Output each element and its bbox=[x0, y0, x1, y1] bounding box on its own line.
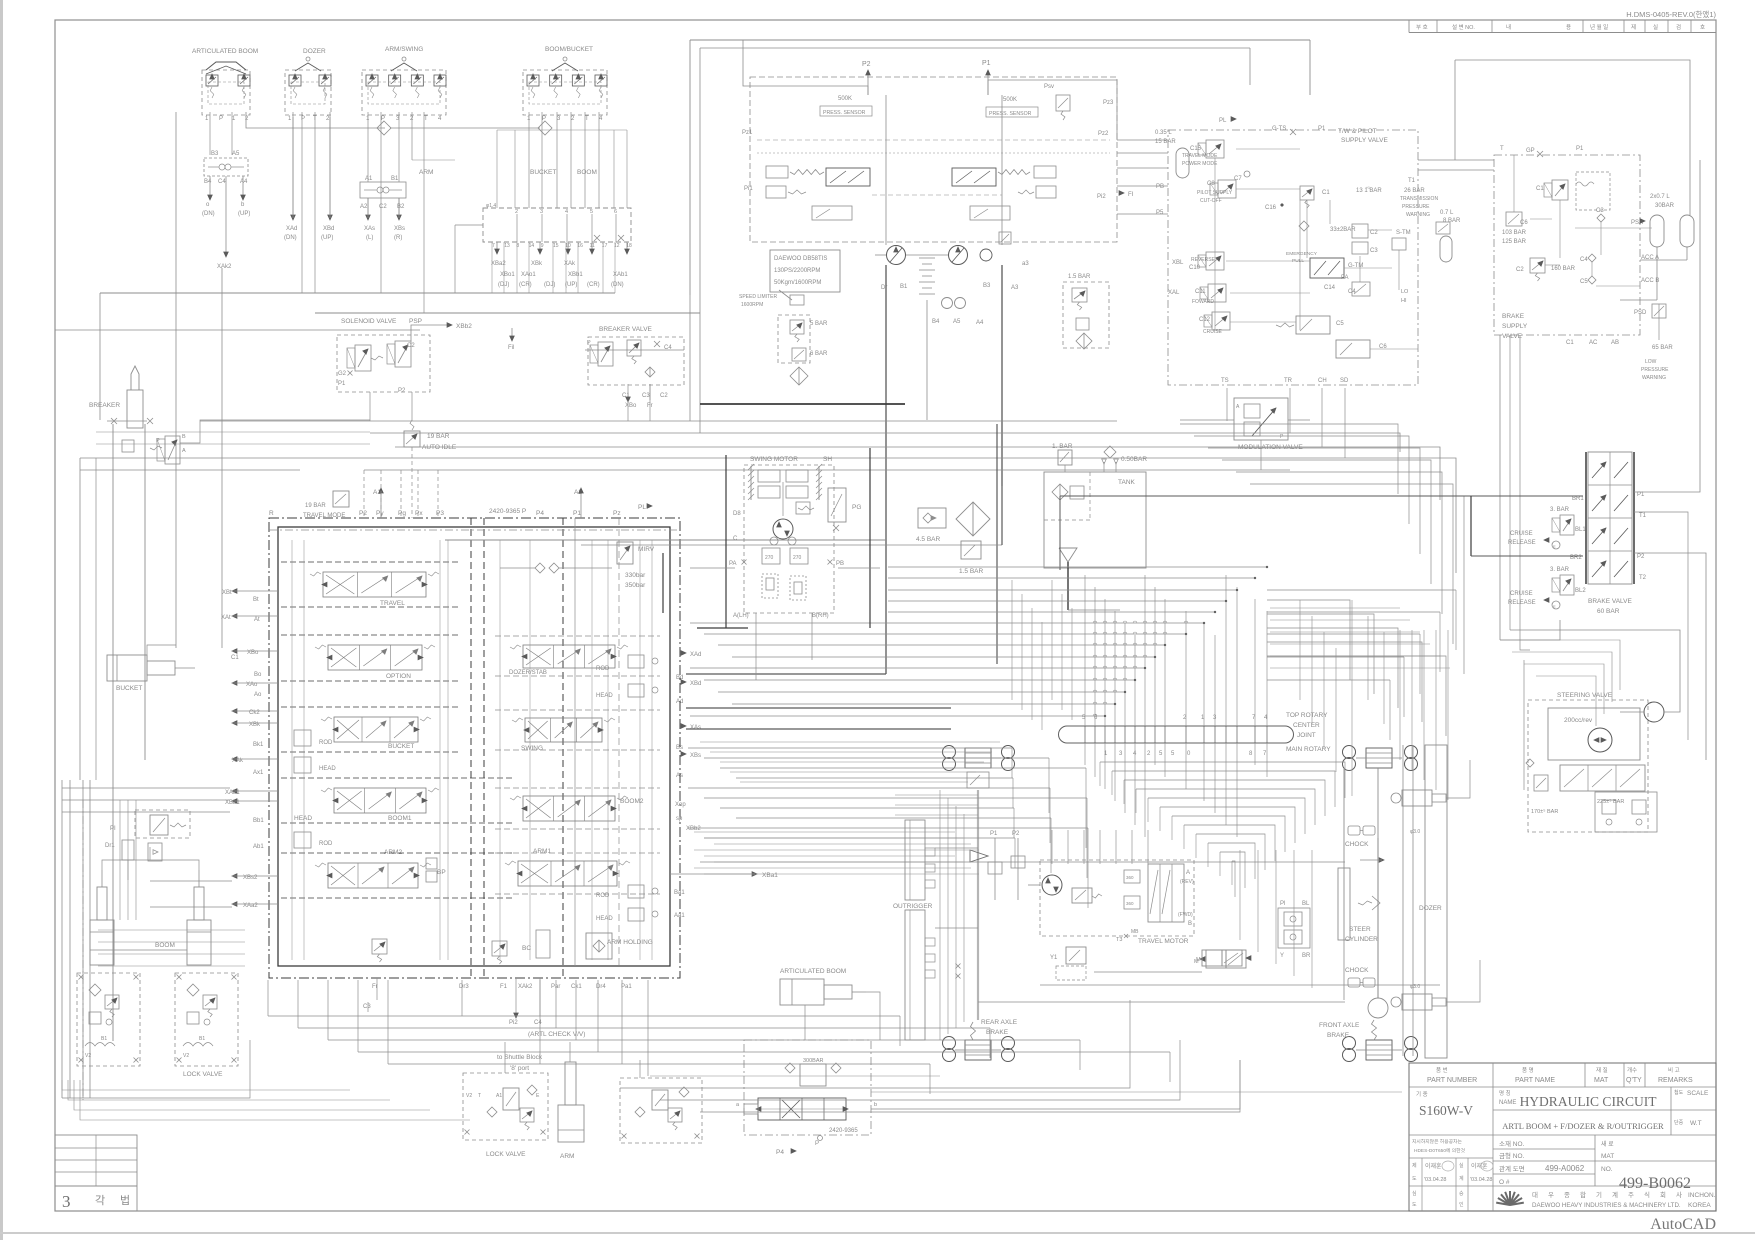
svg-text:MB: MB bbox=[1131, 929, 1139, 935]
svg-text:H.DMS-0405-REV.0(한앴1): H.DMS-0405-REV.0(한앴1) bbox=[1626, 10, 1716, 19]
svg-text:XBt: XBt bbox=[222, 590, 232, 596]
svg-text:'03.04.28: '03.04.28 bbox=[1470, 1177, 1492, 1183]
svg-text:LOW: LOW bbox=[1645, 359, 1657, 365]
svg-text:(DN): (DN) bbox=[611, 282, 624, 288]
svg-text:ROD: ROD bbox=[319, 841, 333, 847]
svg-text:BOOM1: BOOM1 bbox=[388, 815, 412, 822]
svg-text:XAt: XAt bbox=[221, 615, 231, 621]
svg-text:(CR): (CR) bbox=[519, 282, 532, 288]
svg-text:DOZER: DOZER bbox=[303, 48, 326, 55]
svg-text:MAT: MAT bbox=[1601, 1153, 1614, 1160]
svg-text:(R): (R) bbox=[394, 235, 402, 241]
svg-text:ARTL BOOM + F/DOZER & R/OUTRIG: ARTL BOOM + F/DOZER & R/OUTRIGGER bbox=[1502, 1121, 1664, 1131]
svg-text:CH: CH bbox=[1318, 378, 1327, 384]
svg-text:W.T: W.T bbox=[1690, 1120, 1702, 1127]
svg-text:WARNING: WARNING bbox=[1642, 375, 1666, 381]
svg-text:160 BAR: 160 BAR bbox=[1551, 266, 1576, 272]
svg-text:BREAKER VALVE: BREAKER VALVE bbox=[599, 326, 653, 333]
svg-text:360: 360 bbox=[1126, 901, 1134, 906]
svg-text:2: 2 bbox=[515, 209, 518, 215]
svg-text:V2: V2 bbox=[183, 1053, 189, 1059]
svg-text:Pl: Pl bbox=[1280, 901, 1285, 907]
svg-text:C2: C2 bbox=[379, 204, 387, 210]
svg-text:비 고: 비 고 bbox=[1668, 1066, 1680, 1074]
svg-text:SOLENOID VALVE: SOLENOID VALVE bbox=[341, 318, 397, 325]
svg-text:XBo: XBo bbox=[625, 403, 637, 409]
svg-text:RELEASE: RELEASE bbox=[1508, 540, 1536, 546]
svg-text:ARM2: ARM2 bbox=[384, 849, 402, 856]
svg-text:Bo: Bo bbox=[254, 672, 262, 678]
svg-text:2420-9365 P: 2420-9365 P bbox=[489, 508, 526, 515]
svg-text:SCALE: SCALE bbox=[1687, 1090, 1709, 1097]
svg-text:350bar: 350bar bbox=[625, 582, 646, 589]
svg-text:합: 합 bbox=[1580, 1190, 1586, 1199]
svg-text:1.5 BAR: 1.5 BAR bbox=[1068, 274, 1091, 280]
svg-text:식: 식 bbox=[1644, 1190, 1650, 1199]
svg-text:B1: B1 bbox=[900, 284, 908, 290]
svg-text:PSP: PSP bbox=[409, 318, 422, 325]
svg-text:G-TS: G-TS bbox=[1272, 126, 1286, 132]
svg-text:PRESS. SENSOR: PRESS. SENSOR bbox=[823, 110, 866, 116]
svg-text:C4: C4 bbox=[534, 1020, 542, 1026]
svg-text:MODULATION VALVE: MODULATION VALVE bbox=[1238, 444, 1303, 451]
svg-text:Bs: Bs bbox=[676, 745, 683, 751]
svg-text:Pg: Pg bbox=[398, 510, 406, 517]
svg-text:XAd: XAd bbox=[690, 652, 701, 658]
svg-text:C8: C8 bbox=[1207, 181, 1215, 187]
svg-text:이재훈: 이재훈 bbox=[1425, 1162, 1442, 1170]
svg-text:499-B0062: 499-B0062 bbox=[1619, 1175, 1691, 1192]
svg-text:AUTO IDLE: AUTO IDLE bbox=[422, 444, 457, 451]
svg-text:C2: C2 bbox=[1516, 267, 1524, 273]
svg-text:Fil: Fil bbox=[508, 345, 514, 351]
svg-text:C7: C7 bbox=[1234, 176, 1242, 182]
svg-text:A3: A3 bbox=[1011, 285, 1019, 291]
svg-text:승: 승 bbox=[1459, 1190, 1464, 1197]
svg-text:19 BAR: 19 BAR bbox=[305, 503, 326, 509]
svg-text:At: At bbox=[254, 617, 260, 623]
svg-text:OUTRIGGER: OUTRIGGER bbox=[893, 903, 933, 910]
svg-text:103 BAR: 103 BAR bbox=[1502, 230, 1527, 236]
svg-text:CHOCK: CHOCK bbox=[1345, 841, 1369, 848]
svg-text:4.5 BAR: 4.5 BAR bbox=[916, 536, 941, 543]
svg-text:500K: 500K bbox=[838, 96, 852, 102]
svg-text:Pz2: Pz2 bbox=[1098, 131, 1109, 137]
svg-text:65 BAR: 65 BAR bbox=[1652, 345, 1673, 351]
svg-text:MIRV: MIRV bbox=[638, 546, 655, 553]
svg-text:Pi2: Pi2 bbox=[509, 1020, 518, 1026]
svg-text:품 명: 품 명 bbox=[1522, 1067, 1534, 1074]
svg-text:ROD: ROD bbox=[319, 740, 333, 746]
svg-text:0.35 L: 0.35 L bbox=[1155, 130, 1172, 136]
svg-text:Ba1: Ba1 bbox=[674, 890, 685, 896]
svg-text:30BAR: 30BAR bbox=[1655, 203, 1675, 209]
svg-text:ARM1: ARM1 bbox=[533, 848, 551, 855]
svg-text:BL1: BL1 bbox=[1575, 527, 1586, 533]
svg-text:C1: C1 bbox=[1536, 186, 1544, 192]
svg-text:170±⁵ BAR: 170±⁵ BAR bbox=[1531, 808, 1558, 815]
svg-text:8 BAR: 8 BAR bbox=[1443, 218, 1461, 224]
svg-text:C4: C4 bbox=[218, 179, 226, 185]
svg-text:BP: BP bbox=[437, 869, 446, 876]
svg-text:(DN): (DN) bbox=[202, 211, 215, 217]
svg-text:14: 14 bbox=[529, 243, 535, 249]
svg-text:TANK: TANK bbox=[1118, 479, 1136, 486]
svg-text:HDES-D0T650에 의한것: HDES-D0T650에 의한것 bbox=[1414, 1147, 1466, 1154]
svg-text:TS: TS bbox=[1221, 378, 1229, 384]
svg-text:ARTICULATED BOOM: ARTICULATED BOOM bbox=[192, 48, 258, 55]
svg-text:V2: V2 bbox=[466, 1093, 472, 1099]
svg-text:B(RH): B(RH) bbox=[812, 613, 829, 619]
svg-text:R: R bbox=[269, 510, 274, 517]
svg-text:XBL: XBL bbox=[1172, 260, 1184, 266]
svg-text:Psv: Psv bbox=[1044, 84, 1054, 90]
svg-text:LO: LO bbox=[1401, 289, 1409, 295]
svg-text:Pz: Pz bbox=[613, 510, 621, 517]
svg-text:BOOM/BUCKET: BOOM/BUCKET bbox=[545, 46, 593, 53]
svg-text:BUCKET: BUCKET bbox=[116, 685, 142, 692]
svg-text:계: 계 bbox=[1612, 1190, 1618, 1199]
svg-text:ARM/SWING: ARM/SWING bbox=[385, 46, 423, 53]
svg-text:TRAVEL MODE: TRAVEL MODE bbox=[303, 513, 345, 519]
svg-text:XBs: XBs bbox=[394, 226, 405, 232]
svg-text:C6: C6 bbox=[1520, 220, 1528, 226]
svg-text:XBs: XBs bbox=[690, 753, 701, 759]
svg-text:BR: BR bbox=[1302, 953, 1311, 959]
svg-text:XBb1: XBb1 bbox=[568, 272, 583, 278]
svg-text:이재훈: 이재훈 bbox=[1471, 1162, 1488, 1170]
svg-text:A4: A4 bbox=[240, 179, 248, 185]
svg-text:회: 회 bbox=[1660, 1191, 1666, 1199]
svg-text:BUCKET: BUCKET bbox=[530, 169, 556, 176]
svg-text:6: 6 bbox=[614, 209, 617, 215]
svg-text:Pz3: Pz3 bbox=[1103, 100, 1114, 106]
svg-text:KOREA: KOREA bbox=[1688, 1202, 1711, 1209]
svg-text:ARM: ARM bbox=[419, 169, 433, 176]
svg-text:A4: A4 bbox=[976, 320, 984, 326]
svg-text:내: 내 bbox=[1506, 23, 1511, 31]
svg-text:T: T bbox=[478, 1093, 481, 1099]
svg-text:125 BAR: 125 BAR bbox=[1502, 239, 1527, 245]
svg-text:각: 각 bbox=[95, 1194, 105, 1207]
svg-text:PL: PL bbox=[1219, 118, 1227, 124]
svg-text:P: P bbox=[219, 116, 223, 122]
svg-text:INCHON.: INCHON. bbox=[1688, 1192, 1716, 1199]
svg-text:Ad: Ad bbox=[676, 699, 683, 705]
svg-text:0.50BAR: 0.50BAR bbox=[1121, 456, 1147, 463]
svg-text:VALVE: VALVE bbox=[1502, 333, 1523, 340]
svg-text:MAT: MAT bbox=[1594, 1077, 1609, 1084]
svg-text:19 BAR: 19 BAR bbox=[427, 433, 450, 440]
svg-text:REVERSE: REVERSE bbox=[1191, 257, 1216, 263]
svg-text:a3: a3 bbox=[1022, 261, 1029, 267]
svg-text:C1: C1 bbox=[1322, 190, 1330, 196]
svg-text:Pz1: Pz1 bbox=[742, 130, 753, 136]
svg-text:DOZER/STAB: DOZER/STAB bbox=[509, 670, 547, 676]
svg-text:C3: C3 bbox=[1596, 208, 1604, 214]
svg-text:A2: A2 bbox=[360, 204, 368, 210]
svg-text:B4: B4 bbox=[932, 319, 940, 325]
svg-text:사: 사 bbox=[1676, 1190, 1682, 1199]
svg-text:ARM HOLDING: ARM HOLDING bbox=[607, 939, 653, 946]
svg-text:GP: GP bbox=[1526, 148, 1535, 154]
svg-text:금형 NO.: 금형 NO. bbox=[1499, 1152, 1525, 1160]
svg-text:C5: C5 bbox=[1336, 321, 1344, 327]
svg-text:Dr1: Dr1 bbox=[105, 843, 115, 849]
svg-text:Bt: Bt bbox=[253, 597, 259, 603]
svg-text:B: B bbox=[1188, 921, 1192, 927]
svg-text:S160W-V: S160W-V bbox=[1419, 1103, 1473, 1118]
svg-text:P1: P1 bbox=[982, 60, 991, 67]
svg-text:첩도: 첩도 bbox=[1674, 1090, 1684, 1096]
svg-text:φ3.0: φ3.0 bbox=[1410, 829, 1420, 835]
svg-text:FRONT AXLE: FRONT AXLE bbox=[1319, 1022, 1360, 1029]
svg-text:JOINT: JOINT bbox=[1297, 732, 1316, 739]
svg-text:A5: A5 bbox=[232, 151, 240, 157]
svg-text:P2: P2 bbox=[398, 388, 406, 394]
svg-text:P1: P1 bbox=[1318, 126, 1326, 132]
svg-text:P1: P1 bbox=[1637, 492, 1645, 498]
svg-text:C2: C2 bbox=[407, 343, 415, 349]
svg-text:T: T bbox=[424, 116, 428, 122]
svg-text:4: 4 bbox=[565, 209, 568, 215]
svg-text:PI: PI bbox=[110, 826, 116, 832]
svg-text:1600RPM: 1600RPM bbox=[741, 302, 763, 308]
svg-text:Aa1: Aa1 bbox=[674, 913, 685, 919]
svg-text:PART NUMBER: PART NUMBER bbox=[1427, 1077, 1477, 1084]
svg-text:CHOCK: CHOCK bbox=[1345, 967, 1369, 974]
svg-text:60 BAR: 60 BAR bbox=[1597, 608, 1620, 615]
svg-text:E: E bbox=[1553, 544, 1556, 549]
svg-text:XAs: XAs bbox=[690, 725, 701, 731]
svg-text:ARTICULATED BOOM: ARTICULATED BOOM bbox=[780, 968, 846, 975]
svg-text:BRAKE: BRAKE bbox=[986, 1029, 1009, 1036]
svg-text:PRESSURE: PRESSURE bbox=[1402, 204, 1430, 210]
svg-text:CRUISE: CRUISE bbox=[1510, 591, 1533, 597]
svg-text:HEAD: HEAD bbox=[319, 766, 336, 772]
svg-text:P1: P1 bbox=[990, 831, 998, 837]
svg-text:(CR): (CR) bbox=[587, 282, 600, 288]
svg-text:P4: P4 bbox=[776, 1149, 784, 1156]
svg-text:'03.04.28: '03.04.28 bbox=[1424, 1177, 1446, 1183]
svg-text:도: 도 bbox=[1412, 1202, 1417, 1208]
svg-text:0.7 L: 0.7 L bbox=[1440, 210, 1454, 216]
svg-text:P1: P1 bbox=[338, 381, 346, 387]
svg-text:C3: C3 bbox=[642, 393, 650, 399]
svg-text:SD: SD bbox=[1340, 378, 1349, 384]
svg-text:(L): (L) bbox=[366, 235, 373, 241]
svg-text:Y: Y bbox=[1280, 953, 1284, 959]
svg-text:SUPPLY: SUPPLY bbox=[1502, 323, 1528, 330]
svg-text:G2: G2 bbox=[338, 371, 347, 377]
svg-text:Px: Px bbox=[415, 510, 423, 517]
svg-text:sp: sp bbox=[676, 816, 683, 822]
svg-text:종: 종 bbox=[1564, 1191, 1570, 1199]
svg-text:(ARTL CHECK V/V): (ARTL CHECK V/V) bbox=[528, 1031, 585, 1038]
svg-text:P1: P1 bbox=[1576, 146, 1584, 152]
svg-text:DAEWOO HEAVY INDUSTRIES & MACH: DAEWOO HEAVY INDUSTRIES & MACHINERY LTD. bbox=[1532, 1202, 1681, 1209]
svg-text:NO.: NO. bbox=[1601, 1166, 1613, 1173]
svg-text:TRAVEL MOTOR: TRAVEL MOTOR bbox=[1138, 938, 1189, 945]
svg-text:50Kgm/1600RPM: 50Kgm/1600RPM bbox=[774, 280, 821, 286]
svg-text:새 료: 새 료 bbox=[1601, 1140, 1614, 1148]
svg-text:P3: P3 bbox=[436, 510, 444, 517]
svg-text:SPEED LIMITER: SPEED LIMITER bbox=[739, 294, 777, 300]
svg-text:BOOM2: BOOM2 bbox=[620, 798, 644, 805]
svg-text:F1: F1 bbox=[500, 984, 508, 990]
svg-text:P: P bbox=[815, 1141, 819, 1147]
svg-text:T: T bbox=[585, 116, 589, 122]
svg-text:심: 심 bbox=[1412, 1190, 1417, 1197]
svg-text:부 호: 부 호 bbox=[1416, 24, 1428, 31]
svg-text:PA: PA bbox=[1341, 275, 1349, 281]
svg-text:S-TM: S-TM bbox=[1396, 230, 1411, 236]
svg-text:T2: T2 bbox=[1639, 575, 1647, 581]
svg-text:XBk: XBk bbox=[531, 261, 543, 267]
svg-text:A1: A1 bbox=[365, 176, 373, 182]
svg-text:P4: P4 bbox=[536, 510, 544, 517]
svg-text:REMARKS: REMARKS bbox=[1658, 1077, 1693, 1084]
svg-text:13: 13 bbox=[504, 243, 510, 249]
svg-text:(FWD): (FWD) bbox=[1178, 912, 1193, 918]
svg-text:SH: SH bbox=[823, 456, 832, 463]
svg-text:TRAVEL MODE: TRAVEL MODE bbox=[1182, 153, 1218, 159]
svg-text:용: 용 bbox=[1566, 24, 1571, 31]
svg-text:REAR AXLE: REAR AXLE bbox=[981, 1019, 1018, 1026]
svg-text:3: 3 bbox=[62, 1192, 71, 1211]
svg-text:BREAKER: BREAKER bbox=[89, 402, 120, 409]
svg-text:DAEWOO DB58TIS: DAEWOO DB58TIS bbox=[774, 256, 827, 262]
svg-text:T1: T1 bbox=[1639, 513, 1647, 519]
svg-text:P5: P5 bbox=[1156, 210, 1164, 216]
svg-text:C4: C4 bbox=[664, 345, 672, 351]
svg-text:(REV): (REV) bbox=[1180, 879, 1194, 885]
svg-text:300BAR: 300BAR bbox=[803, 1058, 824, 1064]
svg-text:PART NAME: PART NAME bbox=[1515, 1077, 1555, 1084]
svg-text:270: 270 bbox=[765, 555, 774, 561]
svg-text:재 질: 재 질 bbox=[1596, 1066, 1608, 1074]
svg-text:Pi2: Pi2 bbox=[1097, 194, 1106, 200]
svg-text:B4: B4 bbox=[204, 179, 212, 185]
svg-text:실: 실 bbox=[1653, 23, 1658, 31]
svg-text:HEAD: HEAD bbox=[596, 693, 613, 699]
svg-text:ACC B: ACC B bbox=[1641, 278, 1659, 284]
svg-text:'8' port: '8' port bbox=[510, 1065, 529, 1072]
svg-text:A: A bbox=[1186, 870, 1190, 876]
svg-text:D8: D8 bbox=[733, 511, 741, 517]
svg-text:T/W & PILOT: T/W & PILOT bbox=[1338, 128, 1377, 135]
svg-text:330bar: 330bar bbox=[625, 572, 646, 579]
svg-text:품 번: 품 번 bbox=[1436, 1066, 1448, 1074]
svg-text:XAL: XAL bbox=[1168, 290, 1180, 296]
svg-text:OPTION: OPTION bbox=[386, 673, 411, 680]
svg-text:RELEASE: RELEASE bbox=[1508, 600, 1536, 606]
svg-text:호: 호 bbox=[1700, 24, 1705, 31]
svg-text:1.5 BAR: 1.5 BAR bbox=[959, 568, 984, 575]
svg-text:도: 도 bbox=[1412, 1176, 1417, 1182]
svg-text:Ao: Ao bbox=[254, 692, 262, 698]
svg-text:A(LH): A(LH) bbox=[733, 613, 749, 619]
svg-text:PG: PG bbox=[852, 504, 861, 511]
svg-text:(DN): (DN) bbox=[284, 235, 297, 241]
svg-text:As: As bbox=[676, 773, 683, 779]
svg-text:BRAKE: BRAKE bbox=[1502, 313, 1525, 320]
svg-text:Py: Py bbox=[376, 510, 384, 517]
svg-text:제: 제 bbox=[1412, 1162, 1417, 1169]
svg-text:C16: C16 bbox=[1265, 205, 1277, 211]
svg-text:TRANSMISSION: TRANSMISSION bbox=[1400, 196, 1438, 202]
svg-text:SWING MOTOR: SWING MOTOR bbox=[750, 456, 798, 463]
svg-text:7: 7 bbox=[492, 243, 495, 249]
svg-text:ARM: ARM bbox=[560, 1153, 574, 1160]
svg-text:5: 5 bbox=[590, 209, 593, 215]
svg-text:BRAKE VALVE: BRAKE VALVE bbox=[1588, 598, 1632, 605]
svg-text:T1: T1 bbox=[1408, 178, 1416, 184]
svg-text:9: 9 bbox=[541, 243, 544, 249]
svg-text:C: C bbox=[733, 536, 738, 542]
svg-text:2x0.7 L: 2x0.7 L bbox=[1650, 194, 1670, 200]
svg-text:인: 인 bbox=[1459, 1201, 1464, 1208]
svg-text:실: 실 bbox=[1459, 1162, 1464, 1169]
svg-text:LOCK VALVE: LOCK VALVE bbox=[486, 1151, 526, 1158]
svg-text:Y1: Y1 bbox=[1050, 955, 1058, 961]
svg-text:우: 우 bbox=[1548, 1191, 1554, 1199]
svg-text:BL: BL bbox=[1302, 901, 1310, 907]
svg-text:CUT-OFF: CUT-OFF bbox=[1200, 198, 1222, 204]
svg-text:PSD: PSD bbox=[1634, 310, 1647, 316]
svg-text:설 변 NO.: 설 변 NO. bbox=[1452, 23, 1475, 31]
svg-text:PL: PL bbox=[638, 504, 646, 511]
svg-text:C3: C3 bbox=[363, 1004, 371, 1010]
svg-text:P2: P2 bbox=[862, 61, 871, 68]
svg-text:개수: 개수 bbox=[1627, 1066, 1637, 1074]
svg-text:BOOM: BOOM bbox=[155, 942, 175, 949]
svg-text:CYLINDER: CYLINDER bbox=[1345, 936, 1378, 943]
svg-text:검: 검 bbox=[1676, 24, 1681, 31]
svg-text:B3: B3 bbox=[983, 283, 991, 289]
svg-text:BL2: BL2 bbox=[1575, 588, 1586, 594]
svg-text:A: A bbox=[182, 448, 186, 454]
svg-text:C2: C2 bbox=[1370, 230, 1378, 236]
svg-text:POWER MODE: POWER MODE bbox=[1182, 161, 1218, 167]
svg-text:(UP): (UP) bbox=[565, 282, 577, 288]
svg-text:3. BAR: 3. BAR bbox=[1550, 507, 1570, 513]
svg-text:SUPPLY VALVE: SUPPLY VALVE bbox=[1341, 137, 1389, 144]
svg-text:225±⁵ BAR: 225±⁵ BAR bbox=[1597, 798, 1624, 805]
svg-text:C14: C14 bbox=[1324, 285, 1336, 291]
svg-text:기 종: 기 종 bbox=[1416, 1090, 1428, 1098]
svg-text:A5: A5 bbox=[953, 319, 961, 325]
svg-text:6 BAR: 6 BAR bbox=[810, 351, 828, 357]
svg-text:PRESSURE: PRESSURE bbox=[1641, 367, 1669, 373]
svg-text:B: B bbox=[182, 434, 186, 440]
svg-text:C1: C1 bbox=[231, 655, 239, 661]
svg-text:Dr3: Dr3 bbox=[459, 984, 469, 990]
svg-text:B1: B1 bbox=[391, 176, 399, 182]
svg-text:P1: P1 bbox=[573, 510, 581, 517]
svg-text:지시하지않은 허용공차는: 지시하지않은 허용공차는 bbox=[1412, 1138, 1462, 1145]
svg-text:Ab1: Ab1 bbox=[253, 844, 264, 850]
svg-text:WARNING: WARNING bbox=[1406, 212, 1430, 218]
svg-text:P2: P2 bbox=[1637, 554, 1645, 560]
svg-text:+1: +1 bbox=[1366, 186, 1370, 190]
svg-text:단중: 단중 bbox=[1674, 1119, 1684, 1126]
svg-text:Pi1: Pi1 bbox=[744, 186, 753, 192]
svg-text:XBb2: XBb2 bbox=[686, 826, 701, 832]
svg-text:NAME: NAME bbox=[1499, 1100, 1516, 1106]
svg-text:130PS/2200RPM: 130PS/2200RPM bbox=[774, 268, 820, 274]
svg-text:3. BAR: 3. BAR bbox=[1550, 567, 1570, 573]
